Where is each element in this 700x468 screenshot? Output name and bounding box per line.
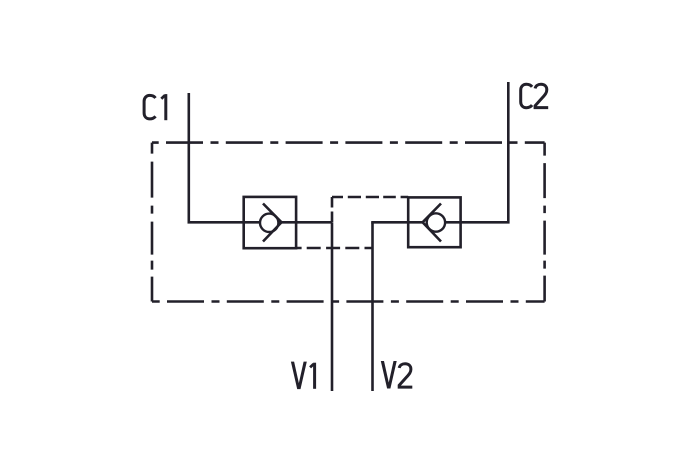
- pilot line V1 to CV2 horizontal: [332, 196, 408, 199]
- check valve CV1 body: [244, 197, 296, 248]
- check valve CV1 seat: [263, 204, 282, 242]
- wire node V1 down to port V1: [331, 222, 334, 391]
- wire node V2 down to port V2: [371, 222, 374, 391]
- pilot line V2 to CV1: [296, 247, 373, 250]
- check valve CV1 ball: [260, 214, 278, 232]
- enclosure dash-dot border right: [543, 143, 546, 302]
- label V1: [291, 362, 307, 390]
- wire node V2 to CV2: [371, 221, 422, 224]
- label C2: [521, 84, 548, 108]
- wire C1 port: [188, 93, 260, 222]
- check valve CV2 body: [408, 197, 460, 247]
- wire C2 port: [445, 82, 510, 222]
- enclosure dash-dot border left: [151, 143, 154, 302]
- check valve CV2 ball: [427, 213, 445, 231]
- check valve CV2 seat: [423, 204, 441, 242]
- label V2: [381, 361, 397, 389]
- enclosure dash-dot border top: [152, 141, 545, 144]
- label C1: [144, 94, 166, 120]
- pilot line V1 to CV2 vertical: [331, 197, 334, 222]
- wire CV1 out to node V1: [282, 221, 333, 224]
- enclosure dash-dot border bottom: [152, 300, 545, 303]
